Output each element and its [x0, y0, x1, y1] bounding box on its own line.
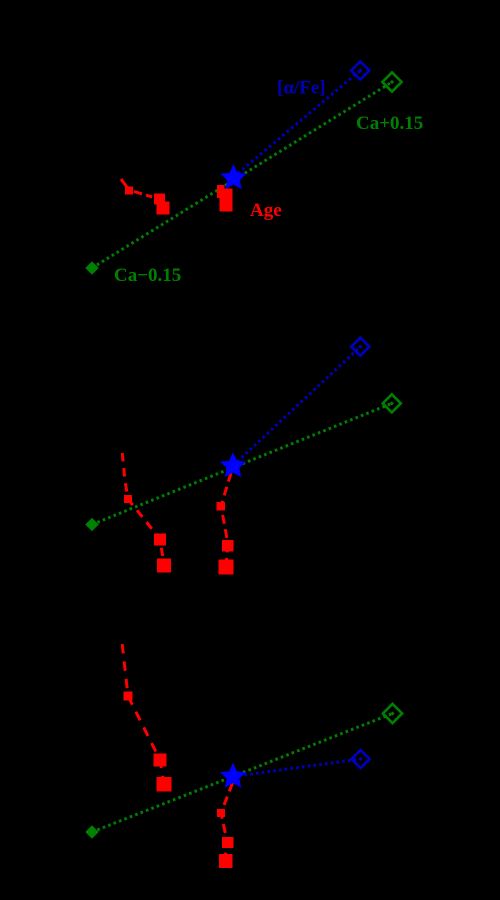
- svg-text:Age: Age: [250, 200, 282, 221]
- svg-text:Ca−0.15: Ca−0.15: [114, 265, 181, 286]
- svg-text:Ca+0.15: Ca+0.15: [356, 113, 423, 134]
- svg-text:[α/Fe]: [α/Fe]: [277, 78, 326, 99]
